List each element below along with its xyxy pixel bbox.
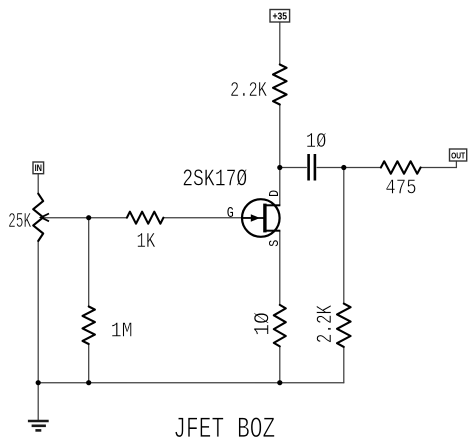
- wire gate node down to 1M: [88, 218, 90, 307]
- junction node drain-cap: [277, 165, 282, 170]
- junction node gate: [86, 215, 91, 220]
- wire 2.2K to rail: [343, 347, 345, 383]
- svg-text:2SK17Ø: 2SK17Ø: [182, 166, 247, 193]
- svg-text:S: S: [266, 240, 282, 247]
- svg-text:G: G: [227, 205, 234, 222]
- pot wiper arrow: [41, 214, 49, 222]
- wire +35 to 2.2K resistor: [279, 22, 281, 65]
- wire drain node to capacitor: [280, 167, 307, 169]
- svg-text:JFET BOZ: JFET BOZ: [173, 413, 275, 444]
- ground: [28, 421, 49, 430]
- resistor R5 475: [381, 161, 421, 173]
- svg-text:2.2K: 2.2K: [312, 305, 337, 344]
- wire source down to 10 resistor: [279, 231, 281, 305]
- capacitor C1 10: [309, 154, 315, 181]
- svg-text:1K: 1K: [136, 229, 156, 254]
- port IN: [33, 162, 44, 174]
- port +35: [270, 10, 290, 23]
- wire 1M to rail: [88, 344, 90, 383]
- wire rail to ground: [37, 383, 39, 421]
- wire capacitor to out node: [317, 167, 344, 169]
- svg-text:2.2K: 2.2K: [230, 78, 268, 103]
- junction node rail-1M: [86, 380, 91, 385]
- wire pot bottom to rail: [37, 241, 39, 383]
- junction node out: [341, 165, 346, 170]
- svg-text:1M: 1M: [111, 318, 133, 343]
- svg-text:OUT: OUT: [451, 151, 465, 161]
- transistor Q1 2SK170 JFET: [242, 199, 280, 237]
- svg-text:25K: 25K: [8, 210, 31, 234]
- junction node rail-ground: [36, 380, 41, 385]
- svg-text:D: D: [267, 190, 282, 197]
- wire out node to 475: [344, 167, 381, 169]
- wire 1K to gate: [163, 217, 252, 219]
- junction node rail-source: [277, 380, 282, 385]
- resistor R4 10 source: [274, 305, 286, 347]
- wire 475 to OUT box: [421, 161, 457, 168]
- svg-text:1Ø: 1Ø: [250, 312, 276, 336]
- wire bottom rail: [38, 382, 344, 384]
- resistor R6 2.2K bottom: [337, 304, 351, 347]
- svg-text:+35: +35: [273, 11, 288, 23]
- wire IN box to pot: [37, 174, 39, 194]
- wire pot wiper to gate node: [43, 217, 89, 219]
- resistor R2 1K: [127, 212, 163, 224]
- potentiometer 25K: [33, 194, 43, 241]
- wire gate node to 1K: [89, 217, 127, 219]
- svg-text:1Ø: 1Ø: [306, 129, 327, 153]
- svg-text:475: 475: [385, 176, 416, 200]
- wire 10 resistor to rail: [279, 346, 281, 382]
- resistor R3 1M: [83, 307, 95, 345]
- wire 2.2K to drain: [279, 105, 281, 206]
- port OUT: [450, 149, 467, 161]
- wire out node down to 2.2K: [343, 168, 345, 304]
- resistor R1 2.2K top: [273, 65, 287, 105]
- svg-text:IN: IN: [35, 163, 42, 173]
